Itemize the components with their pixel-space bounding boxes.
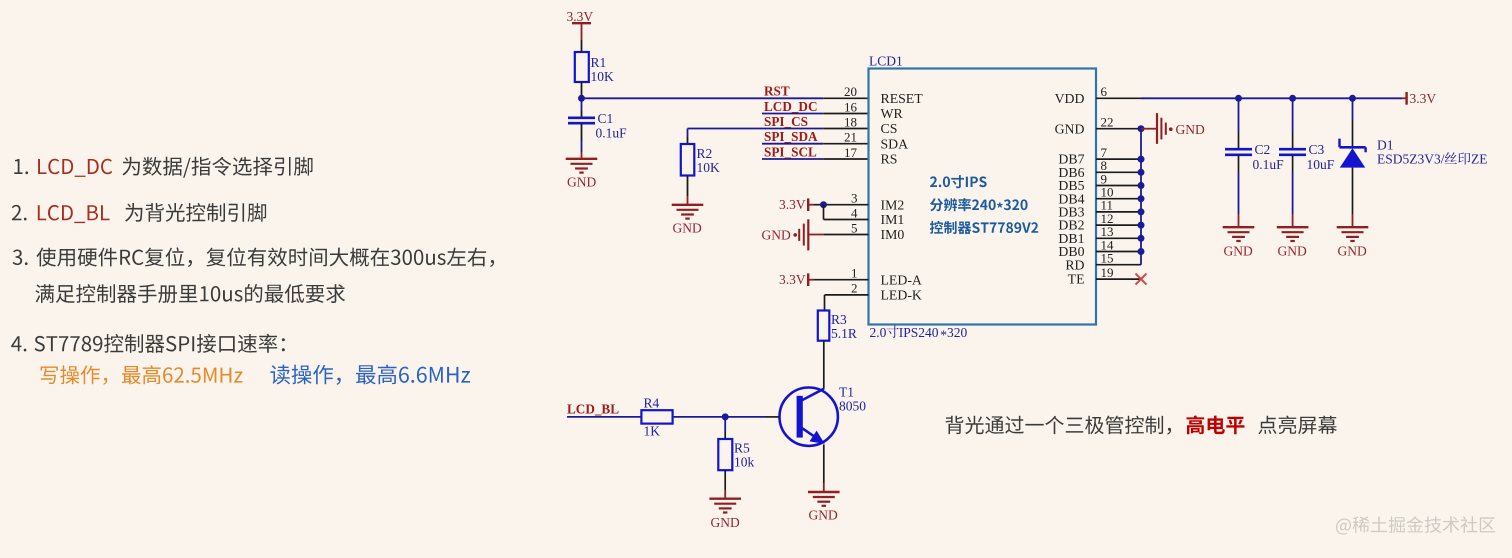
wire net LCD_DC bbox=[762, 113, 823, 115]
node junction IM2-IM1 bbox=[820, 201, 827, 208]
svg-text:R5: R5 bbox=[734, 441, 750, 456]
caption backlight text bbox=[946, 415, 1337, 434]
svg-text:SPI_SDA: SPI_SDA bbox=[764, 129, 818, 144]
wire R4 to node bbox=[673, 416, 726, 418]
svg-text:4: 4 bbox=[851, 205, 858, 220]
pin stub DB2 bbox=[1096, 224, 1141, 226]
node junction R1-C1 bbox=[578, 95, 585, 102]
node junction base bbox=[722, 413, 729, 420]
pin stub GND bbox=[1096, 128, 1141, 130]
wire D1 bottom bbox=[1352, 168, 1354, 214]
wire net SPI_SDA bbox=[762, 143, 823, 145]
annotation notes text bbox=[11, 157, 494, 385]
diode D1 symbol bbox=[1340, 146, 1366, 149]
svg-text:IM0: IM0 bbox=[881, 227, 905, 242]
ground GND C1 bbox=[566, 158, 598, 160]
wire net SPI_SCL bbox=[762, 158, 823, 160]
wire LCD_BL bbox=[567, 416, 641, 418]
svg-text:16: 16 bbox=[844, 99, 858, 114]
svg-text:320: 320 bbox=[947, 325, 968, 340]
svg-text:15: 15 bbox=[1101, 251, 1114, 266]
wire R1 top bbox=[581, 40, 583, 52]
svg-text:GND: GND bbox=[809, 508, 838, 523]
wire VDD rail bbox=[1141, 97, 1402, 99]
svg-text:VDD: VDD bbox=[1055, 91, 1085, 106]
resistor R2 bbox=[681, 144, 695, 176]
resistor R3 bbox=[818, 311, 830, 341]
svg-text:0.1uF: 0.1uF bbox=[1253, 157, 1285, 172]
svg-text:ZE: ZE bbox=[1471, 152, 1488, 167]
svg-text:WR: WR bbox=[881, 106, 904, 121]
wire RST net bbox=[582, 97, 824, 99]
svg-text:22: 22 bbox=[1101, 115, 1114, 130]
svg-text:IM1: IM1 bbox=[881, 212, 905, 227]
capacitor C2 bbox=[1225, 148, 1252, 151]
svg-text:GND: GND bbox=[1278, 244, 1307, 259]
wire IM1 drop bbox=[823, 205, 825, 220]
transistor T1 bbox=[780, 388, 838, 446]
ground GND D1 bbox=[1337, 226, 1369, 228]
svg-text:RD: RD bbox=[1065, 257, 1084, 272]
svg-text:2.0: 2.0 bbox=[870, 325, 887, 340]
node junction DB6 bbox=[1138, 169, 1145, 176]
wire net RST bbox=[823, 97, 868, 99]
svg-text:R3: R3 bbox=[831, 312, 847, 327]
wire R3 bottom to collector bbox=[823, 341, 825, 389]
svg-text:T1: T1 bbox=[839, 385, 854, 400]
svg-text:8050: 8050 bbox=[839, 399, 866, 414]
wire node to base bbox=[725, 416, 766, 418]
ground GND T1 bbox=[808, 491, 840, 493]
wire node to R5 bbox=[724, 417, 726, 432]
svg-text:1K: 1K bbox=[644, 424, 661, 439]
wire C1 bottom bbox=[581, 123, 583, 141]
svg-text:LCD_BL: LCD_BL bbox=[567, 402, 619, 417]
wire LED-A bbox=[814, 279, 869, 281]
pin stub RD bbox=[1096, 264, 1141, 266]
wire LED-K bbox=[825, 294, 869, 296]
svg-text:R2: R2 bbox=[697, 146, 713, 161]
capacitor C1 bbox=[568, 117, 595, 120]
pin stub DB5 bbox=[1096, 185, 1141, 187]
wire R2 top to SPI_CS bbox=[687, 129, 689, 138]
IC U-LCD1 box bbox=[869, 69, 1097, 325]
resistor R4 bbox=[641, 410, 672, 423]
svg-text:C1: C1 bbox=[598, 111, 614, 126]
wire IM0 bbox=[824, 234, 869, 236]
svg-text:GND: GND bbox=[673, 221, 702, 236]
svg-text:GND: GND bbox=[567, 175, 596, 190]
svg-text:D1: D1 bbox=[1377, 138, 1394, 153]
svg-text:19: 19 bbox=[1101, 265, 1114, 280]
ground GND C2 bbox=[1223, 226, 1255, 228]
svg-text:6: 6 bbox=[1101, 84, 1108, 99]
node junction DB3 bbox=[1138, 208, 1145, 215]
wire D1 top bbox=[1352, 98, 1354, 120]
svg-text:GND: GND bbox=[762, 228, 791, 243]
ground GND (pin22) bbox=[1141, 128, 1157, 130]
wire C2 bottom bbox=[1238, 155, 1240, 172]
wire emitter down bbox=[823, 445, 825, 484]
wire node to C1 bbox=[581, 98, 583, 111]
svg-text:2: 2 bbox=[851, 281, 858, 296]
svg-text:LED-K: LED-K bbox=[881, 288, 922, 303]
pin stub DB1 bbox=[1096, 237, 1141, 239]
svg-text:C3: C3 bbox=[1309, 142, 1325, 157]
svg-text:RS: RS bbox=[881, 152, 898, 167]
chip description text bbox=[930, 175, 1038, 234]
svg-text:18: 18 bbox=[844, 114, 857, 129]
svg-text:10uF: 10uF bbox=[1307, 157, 1335, 172]
node junction DB5 bbox=[1138, 182, 1145, 189]
svg-text:10K: 10K bbox=[697, 160, 721, 175]
svg-text:17: 17 bbox=[844, 145, 858, 160]
svg-text:3.3V: 3.3V bbox=[567, 9, 594, 24]
pin stub DB4 bbox=[1096, 198, 1141, 200]
label silk ZE bbox=[1445, 152, 1471, 164]
svg-text:3.3V: 3.3V bbox=[779, 197, 806, 212]
svg-text:GND: GND bbox=[1176, 122, 1205, 137]
pin stub DB0 bbox=[1096, 251, 1141, 253]
node junction D1 bbox=[1349, 95, 1356, 102]
svg-text:GND: GND bbox=[1055, 121, 1085, 136]
svg-text:21: 21 bbox=[844, 130, 857, 145]
wire IM2 bbox=[814, 204, 824, 206]
node junction C2 bbox=[1235, 95, 1242, 102]
svg-text:IM2: IM2 bbox=[881, 197, 905, 212]
wire R5 bottom bbox=[724, 470, 726, 490]
svg-text:R4: R4 bbox=[644, 396, 660, 411]
svg-text:SDA: SDA bbox=[881, 136, 909, 151]
wire R1 bottom to node bbox=[581, 82, 583, 98]
svg-text:CS: CS bbox=[881, 121, 898, 136]
svg-text:5.1R: 5.1R bbox=[831, 326, 857, 341]
wire C3 top bbox=[1292, 98, 1294, 133]
svg-text:0.1uF: 0.1uF bbox=[596, 126, 628, 141]
ground GND R5 bbox=[709, 498, 741, 500]
svg-text:1: 1 bbox=[851, 266, 858, 281]
svg-text:TE: TE bbox=[1068, 272, 1085, 287]
node junction DB1 bbox=[1138, 235, 1145, 242]
svg-text:LCD1: LCD1 bbox=[869, 54, 903, 69]
svg-text:RST: RST bbox=[764, 84, 790, 99]
node junction DB2 bbox=[1138, 222, 1145, 229]
svg-text:LCD_DC: LCD_DC bbox=[764, 99, 817, 114]
pin stub DB7 bbox=[1096, 158, 1141, 160]
svg-text:ESD5Z3V3/: ESD5Z3V3/ bbox=[1377, 152, 1445, 167]
svg-text:20: 20 bbox=[844, 84, 857, 99]
resistor R5 bbox=[718, 439, 732, 470]
svg-text:10k: 10k bbox=[734, 455, 755, 470]
wire R2 bottom bbox=[687, 176, 689, 197]
pin stub DB6 bbox=[1096, 171, 1141, 173]
pin stub DB3 bbox=[1096, 211, 1141, 213]
node junction DB0 bbox=[1138, 248, 1145, 255]
node junction C3 bbox=[1289, 95, 1296, 102]
svg-text:10K: 10K bbox=[591, 69, 615, 84]
svg-text:C2: C2 bbox=[1255, 142, 1271, 157]
wire GND bus vertical bbox=[1140, 129, 1142, 265]
svg-text:GND: GND bbox=[711, 515, 740, 530]
svg-text:SPI_CS: SPI_CS bbox=[764, 114, 808, 129]
ground GND C3 bbox=[1277, 226, 1309, 228]
wire net SPI_CS bbox=[688, 128, 824, 130]
svg-text:GND: GND bbox=[1224, 244, 1253, 259]
node junction DB4 bbox=[1138, 195, 1145, 202]
resistor R1 bbox=[575, 52, 589, 82]
svg-text:LED-A: LED-A bbox=[881, 272, 922, 287]
capacitor C3 bbox=[1279, 148, 1306, 151]
pin stub TE bbox=[1096, 278, 1141, 280]
svg-text:5: 5 bbox=[851, 220, 858, 235]
svg-text:SPI_SCL: SPI_SCL bbox=[764, 144, 817, 159]
svg-text:3.3V: 3.3V bbox=[1410, 91, 1437, 106]
watermark bbox=[1336, 516, 1495, 534]
svg-text:R1: R1 bbox=[591, 55, 607, 70]
ground GND R2 bbox=[672, 204, 704, 206]
power flag 3.3V (rail) bbox=[1405, 92, 1407, 105]
svg-text:RESET: RESET bbox=[881, 91, 924, 106]
wire C3 bottom bbox=[1292, 155, 1294, 172]
wire C2 top bbox=[1238, 98, 1240, 133]
svg-text:IPS240: IPS240 bbox=[899, 325, 939, 340]
pin stub VDD bbox=[1096, 97, 1141, 99]
svg-text:3.3V: 3.3V bbox=[779, 272, 806, 287]
node junction DB7 bbox=[1138, 156, 1145, 163]
svg-text:GND: GND bbox=[1338, 244, 1367, 259]
node junction pin22 bbox=[1138, 125, 1145, 132]
no-connect X TE bbox=[1136, 274, 1147, 285]
svg-text:3: 3 bbox=[851, 191, 858, 206]
